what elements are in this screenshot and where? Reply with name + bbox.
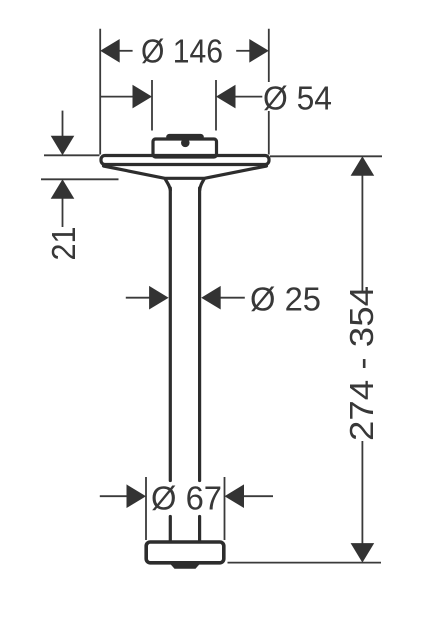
dim Ø146 leader left: [118, 50, 133, 52]
cap top rim: [168, 135, 203, 139]
bottom nub: [169, 563, 201, 569]
arrow Ø146 left: [100, 39, 120, 63]
arrow Ø25 right: [201, 286, 221, 310]
svg-text:Ø 54: Ø 54: [263, 80, 332, 117]
arrow Ø146 right: [249, 39, 268, 63]
dim Ø54 leader right: [235, 96, 263, 98]
arrow 274-354 down: [351, 543, 375, 563]
pipe right edge: [198, 188, 201, 541]
dim 21 upper shaft: [62, 111, 64, 137]
arrow 21 up: [51, 179, 75, 199]
pipe flare right: [200, 180, 204, 190]
dim 21 lower shaft: [62, 198, 64, 227]
arrow Ø54 right: [216, 85, 236, 109]
dim Ø146 extension line right (with gap for Ø54 text): [268, 29, 270, 155]
svg-text:21: 21: [45, 227, 82, 261]
dim Ø67 leader right: [243, 495, 273, 497]
pipe left edge: [169, 188, 172, 541]
dim 274-354 bottom reference line: [228, 562, 382, 564]
svg-text:274 - 354: 274 - 354: [343, 286, 380, 441]
dim Ø25 leader left: [126, 297, 151, 299]
dim Ø54 leader left: [100, 96, 134, 98]
arrow Ø67 left: [127, 484, 147, 508]
arrow Ø25 left: [149, 286, 169, 310]
svg-text:Ø 25: Ø 25: [250, 281, 321, 318]
dim Ø54 extension line right: [215, 80, 217, 131]
pipe flare left: [166, 180, 171, 190]
ceiling plate (flange): [101, 156, 269, 165]
cap body (ceiling connector): [153, 139, 217, 157]
skirt: [104, 166, 267, 178]
dim Ø67 leader left: [100, 495, 129, 497]
arrow Ø54 left: [133, 85, 153, 109]
dim 274-354 shaft: [361, 176, 363, 544]
arrow 274-354 up: [351, 156, 375, 176]
arrow Ø67 right: [225, 484, 245, 508]
dim Ø67 extension line right: [224, 477, 226, 540]
dim Ø25 leader right: [220, 297, 245, 299]
svg-text:Ø 67: Ø 67: [151, 480, 222, 517]
dim Ø67 extension line left: [145, 477, 147, 540]
dim Ø54 extension line left: [151, 80, 153, 131]
dim 21 bottom reference line: [41, 178, 119, 180]
screw dot: [181, 139, 190, 148]
arrow 21 down: [51, 136, 75, 156]
dim 21 top reference line: [44, 154, 100, 156]
dim Ø146 extension line left: [99, 29, 101, 155]
bottom connector: [146, 542, 224, 563]
svg-text:Ø 146: Ø 146: [141, 33, 223, 70]
dim Ø146 leader right: [236, 50, 251, 52]
dim 274-354 top reference line: [270, 155, 382, 157]
